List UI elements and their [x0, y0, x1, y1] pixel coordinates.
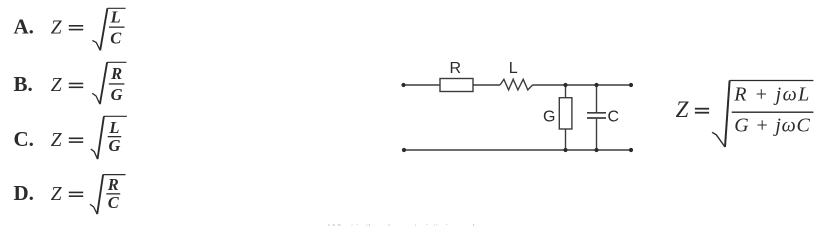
- svg-text:Z: Z: [51, 75, 62, 96]
- svg-text:R: R: [107, 175, 119, 194]
- svg-text:C: C: [110, 29, 122, 48]
- svg-text:G: G: [543, 109, 555, 126]
- svg-text:C: C: [608, 109, 620, 126]
- svg-text:B.: B.: [14, 72, 33, 96]
- svg-text:Z: Z: [676, 97, 689, 122]
- svg-text:Z: Z: [51, 130, 62, 151]
- svg-text:What is the characteristic imp: What is the characteristic impedance: [328, 222, 498, 227]
- svg-text:A.: A.: [14, 14, 34, 38]
- svg-text:G: G: [111, 85, 123, 104]
- svg-text:G + jωC: G + jωC: [734, 114, 810, 136]
- svg-text:R: R: [450, 60, 462, 77]
- svg-text:L: L: [509, 60, 518, 77]
- svg-text:L: L: [110, 8, 121, 27]
- svg-text:R + jωL: R + jωL: [733, 84, 809, 106]
- svg-text:L: L: [108, 118, 119, 137]
- svg-text:C: C: [108, 193, 120, 212]
- svg-text:Z: Z: [51, 17, 62, 38]
- svg-text:Z: Z: [51, 184, 62, 205]
- svg-text:C.: C.: [14, 127, 34, 151]
- svg-text:G: G: [108, 136, 120, 155]
- svg-text:D.: D.: [14, 181, 34, 205]
- svg-text:R: R: [110, 64, 122, 83]
